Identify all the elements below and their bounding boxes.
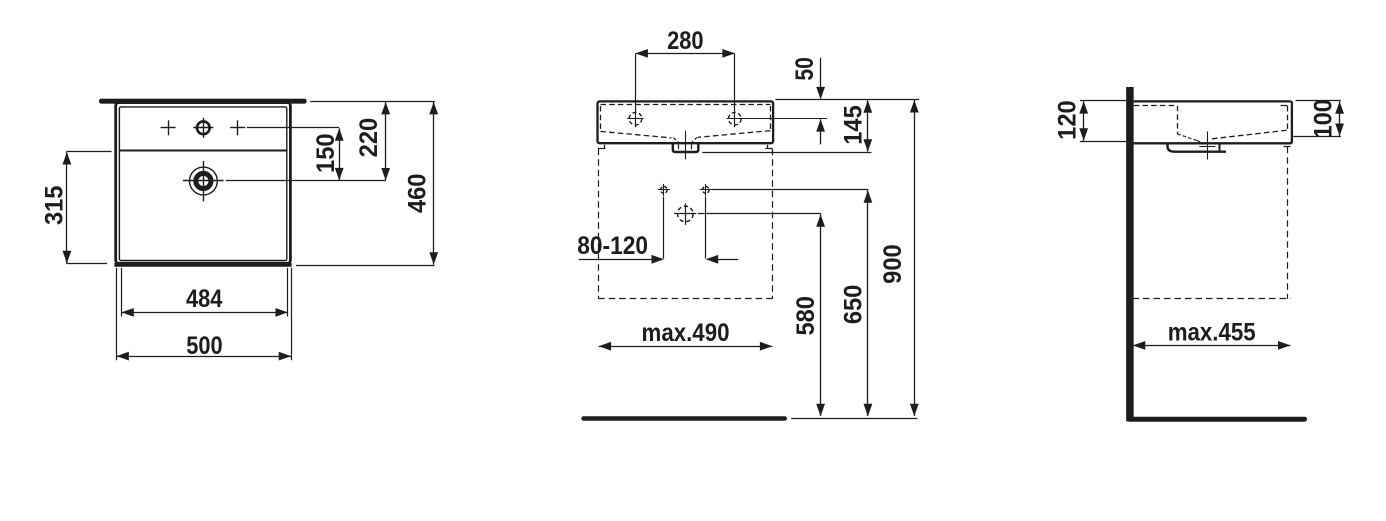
- front view: drain funnel right (dashed): [692, 137, 697, 142]
- left view: right tap hole cross: [230, 127, 245, 129]
- dimension max.455: dimension line with arrows: [1133, 345, 1291, 347]
- svg-text:100: 100: [1309, 99, 1337, 139]
- dimension 500: dimension line with arrows: [117, 356, 292, 358]
- svg-text:650: 650: [839, 285, 867, 325]
- dimension 100: extension lines: [1296, 100, 1341, 102]
- side view: hidden rim front corner dash: [1281, 105, 1288, 107]
- front view: floor line (thin continuation): [791, 418, 917, 420]
- side view: basin body outline: [1134, 101, 1292, 143]
- front view: hidden bowl bottom right slope (dashed): [698, 131, 770, 138]
- side view: floor line: [1129, 417, 1304, 422]
- left view: leader line drain to 220-dim: [226, 180, 386, 182]
- svg-text:145: 145: [839, 105, 867, 145]
- dimension 500: extension lines: [116, 268, 118, 360]
- front view: drain hole (dashed circle with cross): [678, 206, 694, 222]
- side view: siphon cross tick: [1199, 146, 1215, 148]
- side view: dashed clearance outline front: [1287, 147, 1289, 299]
- left view: drain centre cross: [183, 180, 224, 182]
- dimension 315: dimension line with arrows: [66, 152, 68, 263]
- dimension 650: dimension line with arrows: [867, 190, 869, 416]
- dimension 100: dimension line with arrows: [1339, 101, 1341, 135]
- front view: dashed clearance outline bottom: [598, 298, 772, 300]
- left view: leader line tap holes to 150-dim: [247, 127, 339, 129]
- svg-text:900: 900: [879, 244, 907, 284]
- dimension 900: dimension line with arrows: [914, 100, 916, 416]
- front view: tap hole horizontal cross arms: [627, 118, 643, 120]
- svg-text:484: 484: [186, 285, 222, 313]
- left view: deck/bowl divider line: [119, 150, 287, 152]
- svg-text:315: 315: [40, 186, 68, 226]
- front view: basin body rectangle: [598, 101, 774, 143]
- left view: basin outer rim rectangle: [116, 103, 291, 264]
- front view: fixing hole drop lines to 80-120 dim: [663, 197, 665, 259]
- front view: right fixing hole (circle with cross): [703, 187, 710, 194]
- svg-text:max.490: max.490: [642, 319, 730, 347]
- svg-text:50: 50: [791, 57, 819, 81]
- front view: leader drain to 580-dim: [698, 213, 821, 215]
- dimension 80-120: right line with arrow: [707, 259, 738, 261]
- side view: hidden front wall (dashed): [1287, 106, 1289, 130]
- front view: siphon centre line: [685, 131, 687, 160]
- svg-text:80-120: 80-120: [577, 232, 648, 260]
- svg-text:280: 280: [667, 27, 703, 55]
- svg-text:max.455: max.455: [1168, 319, 1256, 347]
- svg-text:460: 460: [404, 174, 432, 214]
- left view: extension line from wall bar to vertical dims: [310, 101, 435, 103]
- left view: basin inner rim rectangle: [119, 107, 286, 261]
- front view: dashed clearance outline right: [772, 149, 774, 299]
- front view: left tap hole (dashed circle): [629, 112, 642, 125]
- side view: siphon outlet: [1168, 144, 1227, 151]
- svg-text:120: 120: [1054, 100, 1082, 140]
- dimension 315: extension lines: [66, 151, 111, 153]
- front view: hidden bowl right wall (dashed): [770, 106, 772, 131]
- front view: siphon inner wall ticks: [678, 145, 680, 150]
- dimension 120: dimension line with arrows: [1083, 101, 1085, 141]
- front view: siphon outlet box: [673, 144, 699, 153]
- dimension 50: upper line with down arrow: [820, 58, 822, 99]
- front view: leader right tap hole to 50-dim: [727, 118, 827, 120]
- dimension 484: dimension line with arrows: [121, 312, 288, 314]
- dimension 460: dimension line with arrows: [433, 102, 435, 265]
- front view: extension line siphon bottom to 145-dim: [702, 152, 871, 154]
- side view: dashed clearance corner dash: [1284, 146, 1291, 148]
- front view: hidden bowl bottom left slope (dashed): [600, 131, 671, 138]
- left view: basin front edge accent (bottom thick line): [114, 263, 291, 267]
- left view: drain outer circle: [190, 167, 218, 195]
- front view: floor line (thick): [584, 416, 785, 420]
- left view: drain inner ring: [196, 173, 211, 188]
- front view: drain funnel left (dashed): [673, 138, 678, 142]
- dimension 50: lower line with up arrow: [820, 119, 822, 144]
- side view: dashed clearance outline bottom: [1133, 298, 1291, 300]
- svg-text:220: 220: [355, 118, 383, 158]
- front view: extension line basin top edge to 900-dim: [776, 99, 920, 101]
- front view: tap hole centre lines up to 280-dim: [635, 54, 637, 127]
- dimension 280: dimension line with arrows: [636, 53, 735, 55]
- dimension 580: dimension line with arrows: [820, 214, 822, 416]
- side view: hidden inner rim top (dashed): [1134, 105, 1178, 107]
- front view: hidden inner rim top (dashed): [601, 104, 771, 106]
- svg-text:580: 580: [792, 296, 820, 336]
- front view: dashed clearance corner dashes: [598, 148, 605, 150]
- dimension 80-120: left line with arrow: [579, 259, 663, 261]
- side view: hidden bowl back wall (dashed): [1177, 106, 1179, 134]
- svg-text:150: 150: [312, 133, 340, 173]
- dimension 460: bottom extension line: [296, 265, 435, 267]
- dimension 120: extension lines: [1080, 100, 1126, 102]
- left view: left tap hole cross: [161, 127, 176, 129]
- front view: dashed clearance outline left: [598, 149, 600, 299]
- front view: wall fitting ticks below basin: [604, 145, 606, 149]
- dimension 220: dimension line with arrows: [385, 102, 387, 180]
- dimension max.490: dimension line with arrows: [599, 346, 773, 348]
- dimension 484: extension lines: [121, 268, 123, 317]
- side view: hidden bowl slope to drain (dashed): [1177, 134, 1197, 141]
- side view: siphon centre line: [1207, 132, 1209, 160]
- front view: hidden bowl left wall (dashed): [600, 106, 602, 131]
- side view: siphon outlet right wall: [1219, 144, 1221, 151]
- front view: right tap hole (dashed circle): [729, 112, 742, 125]
- svg-text:500: 500: [186, 332, 222, 360]
- side view: wall line: [1126, 87, 1134, 421]
- front view: leader fixing holes to 650-dim: [712, 189, 869, 191]
- front view: left fixing hole (circle with cross): [661, 187, 668, 194]
- side view: hidden bowl bottom rising line (dashed): [1212, 130, 1287, 139]
- dimension 145: dimension line with arrows: [867, 100, 869, 151]
- dimension 150: dimension line with arrows: [339, 128, 341, 180]
- left view: centre tap hole (circle with cross): [197, 121, 210, 134]
- left view: wall mounting bar (top): [99, 99, 307, 104]
